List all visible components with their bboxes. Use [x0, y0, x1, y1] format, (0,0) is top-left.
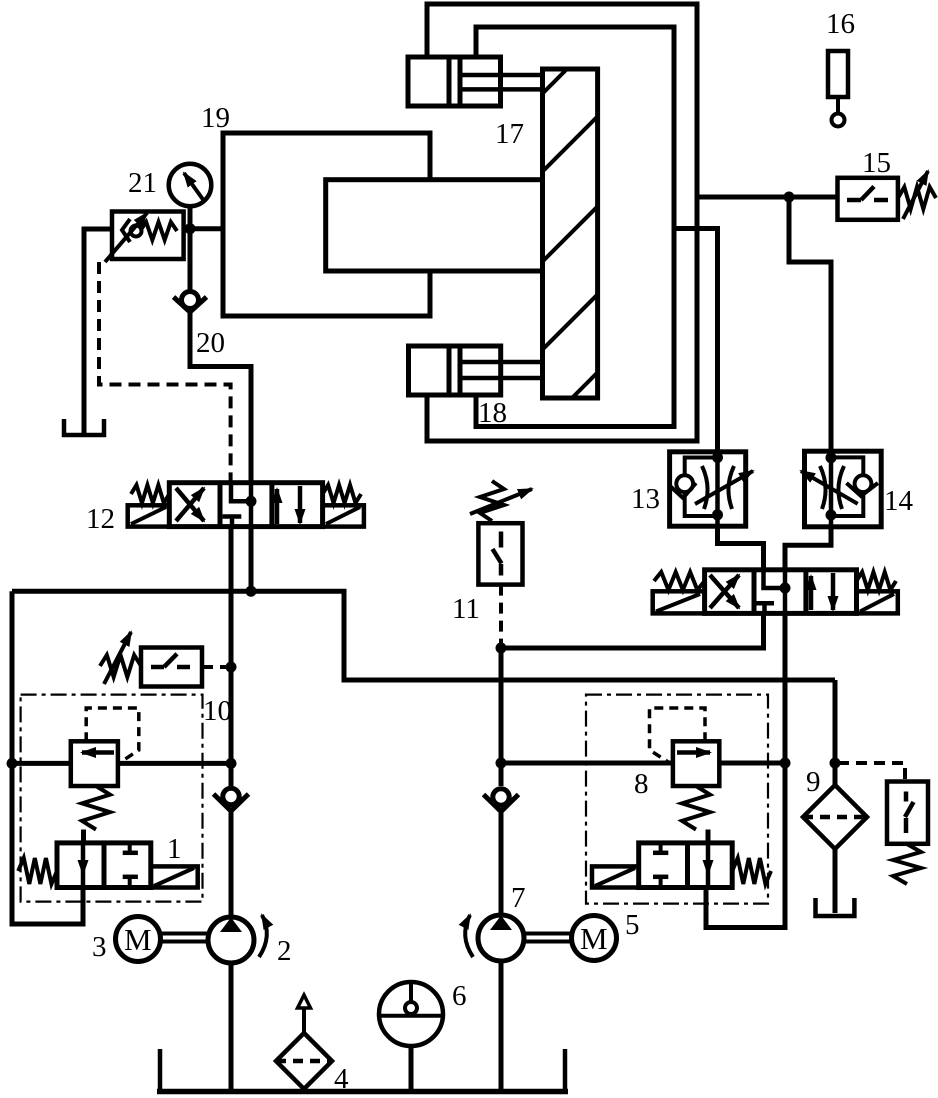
valve 12 left spring: [131, 485, 169, 503]
pressure gauge 21 stem: [188, 207, 193, 229]
svg-text:2: 2: [277, 935, 292, 967]
pump 5 rotation arrow: [465, 915, 473, 957]
cylinder 17 rod top line: [460, 73, 543, 78]
relief valve 1 spring: [82, 786, 110, 830]
motor 3 letter M: [124, 922, 152, 957]
solenoid valve 1 solenoid diagonal: [154, 868, 194, 886]
level gauge 6 stem: [409, 982, 413, 1002]
label 20: [196, 327, 225, 359]
sensor 16 body: [828, 51, 848, 97]
wire right valve A port up: [718, 526, 764, 570]
throttle valve 13 arc right: [728, 466, 734, 509]
solenoid valve 8 blocked bottom stub: [659, 877, 663, 888]
level gauge 6 diameter: [379, 1014, 443, 1018]
right valve right solenoid box: [857, 591, 898, 613]
relief valve 8 pilot dashes: [650, 708, 706, 763]
node junction on relay-15 line: [784, 192, 795, 203]
pump 2 body: [208, 917, 254, 963]
cylinder 18 body: [409, 346, 501, 395]
wire relief 8 line left: [501, 761, 673, 766]
check valve (pump 5) ball: [493, 789, 509, 805]
pressure relay 15 spring: [898, 187, 936, 209]
filter 4 diamond: [276, 1033, 332, 1089]
throttle valve 13 adjust arrow: [695, 471, 753, 504]
wire press port to junction: [190, 226, 223, 231]
solenoid valve 1 flow arrowhead: [78, 860, 89, 876]
throttle valve 13 check ball: [676, 475, 693, 492]
wire relief line left: [12, 761, 71, 766]
tank symbol (right): [816, 898, 855, 916]
node bus junction: [246, 586, 257, 597]
pump 5 triangle: [490, 916, 512, 931]
valve 12 body: [169, 483, 322, 527]
pressure relay (right) spring: [893, 844, 921, 884]
check valve (pump 2) seat: [214, 794, 249, 811]
wire spring to solenoid valve 8: [706, 830, 711, 843]
throttle valve 14 bottom dot: [826, 510, 837, 521]
svg-text:5: 5: [625, 909, 640, 941]
shaft pump5-motor bottom: [524, 940, 572, 944]
label 5: [625, 909, 640, 941]
label 3: [92, 931, 107, 963]
motor 3 body: [116, 917, 161, 962]
cylinder 18 piston line 1: [447, 346, 452, 395]
solenoid valve 1 solenoid box: [151, 866, 198, 887]
svg-text:16: 16: [826, 8, 855, 40]
wire unload valve to junction: [184, 227, 190, 232]
filter 4 arrow: [298, 995, 311, 1008]
cylinder 17 body: [408, 57, 501, 106]
cylinder 18 piston line 2: [458, 346, 463, 395]
right valve center blocked port stub: [762, 603, 767, 613]
throttle valve 13 bottom dot: [712, 509, 723, 520]
svg-text:M: M: [580, 921, 608, 956]
valve 12 right spring: [323, 485, 361, 503]
pressure relay 15 contact left: [847, 198, 861, 203]
solenoid valve 8 body: [639, 843, 733, 888]
sensor 16 stem: [836, 97, 840, 114]
svg-text:17: 17: [495, 118, 524, 150]
relief valve 1 pilot dashes: [86, 708, 139, 763]
label 10: [203, 695, 232, 727]
pressure relay 10 adjust arrow: [104, 632, 131, 684]
throttle valve 14 check seat: [847, 483, 878, 496]
check valve (pump 5) seat: [484, 795, 519, 812]
pressure relay 11 contact bottom: [499, 564, 504, 576]
svg-text:8: 8: [634, 768, 649, 800]
relief/unload valve spring: [140, 222, 177, 240]
svg-text:12: 12: [86, 503, 115, 535]
cylinder 18 rod bottom line: [460, 376, 543, 381]
cylinder 17 piston line 1: [447, 57, 452, 106]
pressure relay 11 contact top: [499, 532, 504, 548]
throttle valve 13 box: [670, 452, 746, 526]
solenoid valve 1 flow arrow: [81, 843, 86, 888]
valve 12 left square X arrow 1: [176, 488, 204, 521]
right valve right solenoid diagonal: [860, 594, 894, 612]
check valve 20 seat: [174, 297, 207, 312]
right valve center L-port: [764, 570, 786, 588]
pressure relay 10 contact right: [177, 665, 190, 670]
svg-text:7: 7: [511, 882, 526, 914]
level gauge 6 inner circle: [405, 1002, 417, 1014]
solenoid valve 1 blocked top stub: [128, 843, 132, 853]
throttle valve 13 bypass loop: [685, 458, 718, 517]
main tank bottom: [157, 1089, 568, 1095]
valve 12 left solenoid box: [128, 505, 170, 526]
main tank left wall: [158, 1049, 163, 1092]
solenoid valve 1 divider: [102, 843, 107, 888]
wire check valve to pump 2: [229, 809, 234, 917]
valve 12 right square down arrow: [298, 486, 303, 523]
label 2: [277, 935, 292, 967]
right valve center blocked port bar: [755, 601, 774, 606]
node filter tap for relay: [830, 758, 841, 769]
svg-text:14: 14: [884, 485, 914, 517]
wire pump 2 riser: [229, 527, 234, 787]
valve 12 body divider right: [269, 483, 274, 527]
label 8: [634, 768, 649, 800]
check valve (pump 2) ball: [223, 788, 239, 804]
solenoid valve 1 blocked top bar: [123, 851, 138, 856]
pressure relay (right) dashed tap: [838, 763, 905, 780]
pressure gauge 21 body: [169, 164, 212, 207]
pressure relay 11 dashed tap: [499, 585, 503, 644]
wire check valve to pump 5: [499, 810, 504, 915]
relief valve 8 box: [673, 741, 719, 786]
wire branch to throttle valve 14: [789, 197, 831, 451]
right valve left spring: [654, 572, 705, 590]
wire pump 5 riser upper: [499, 648, 504, 786]
label 13: [631, 483, 660, 515]
label 18: [478, 397, 507, 429]
relief/unload valve body (at 21): [112, 212, 184, 260]
svg-text:19: 19: [201, 102, 230, 134]
relief valve 1 box: [71, 741, 118, 786]
sensor 16 contact circle: [832, 114, 845, 127]
wire check valve 20 to valve 12: [190, 312, 251, 483]
label 7: [511, 882, 526, 914]
wire tank bus: [12, 591, 835, 680]
press cylinder 19 body: [223, 133, 430, 316]
wire bus to filter 9: [833, 680, 838, 785]
pressure relay 11 spring: [480, 481, 504, 521]
wire spring to solenoid valve 1: [81, 830, 86, 843]
label 9: [806, 766, 821, 798]
solenoid valve 8 blocked bottom bar: [653, 875, 668, 880]
label 11: [452, 593, 480, 625]
solenoid valve 1 body: [57, 843, 151, 888]
cylinder 17 rod bottom line: [460, 87, 543, 92]
wire branch to throttle valve 13: [674, 229, 718, 452]
wire right valve B port up: [785, 527, 831, 570]
workpiece block with hatching: [238, 69, 901, 398]
solenoid valve 1 spring: [18, 858, 57, 884]
valve 12 left solenoid diagonal: [131, 507, 166, 524]
wire to pressure relay 15: [697, 195, 838, 200]
wire filter 9 to tank: [833, 849, 838, 913]
label 21: [128, 167, 157, 199]
solenoid valve 8 flow arrow: [706, 843, 711, 888]
relief valve 1 arrow: [82, 750, 114, 755]
wire left bus down to solenoid valve 1: [12, 591, 83, 924]
right valve right square down arrow: [831, 573, 836, 610]
label 14: [884, 485, 914, 517]
svg-text:13: 13: [631, 483, 660, 515]
throttle valve 13 through line: [715, 452, 720, 526]
throttle valve 14 adjust arrow: [801, 471, 858, 504]
enclosure 8 (dash-dot): [586, 695, 768, 904]
label 4: [334, 1063, 349, 1095]
svg-text:15: 15: [862, 147, 891, 179]
svg-text:6: 6: [452, 980, 467, 1012]
pressure relay (right) box: [887, 782, 928, 844]
node left bus relief tee: [7, 758, 18, 769]
pilot dashed line from unload valve to valve 12: [99, 262, 231, 483]
relief/unload valve seat: [122, 219, 130, 242]
wire outer clamp loop (cyl17 cap port to cyl18 cap port): [427, 4, 697, 441]
wire relief 8 line right: [719, 761, 785, 766]
svg-text:M: M: [124, 922, 152, 957]
svg-text:11: 11: [452, 593, 480, 625]
solenoid valve 1 blocked bottom bar: [123, 875, 138, 880]
throttle valve 14 check ball: [855, 475, 872, 492]
pressure relay (right) contact top: [904, 792, 909, 802]
pressure relay (right) contact bottom: [904, 818, 909, 833]
motor 5 letter M: [580, 921, 608, 956]
valve 12 right solenoid box: [323, 505, 364, 526]
throttle valve 13 top dot: [712, 452, 723, 463]
solenoid valve 8 flow arrowhead: [703, 860, 714, 876]
throttle valve 14 bypass loop: [831, 457, 863, 516]
throttle valve 14 box: [805, 451, 882, 527]
filter 9 diamond: [803, 785, 867, 849]
valve 12 center through line: [249, 483, 254, 527]
level gauge 6 body: [379, 982, 443, 1046]
throttle valve 13 check seat: [670, 483, 696, 498]
wire valve 12 through-port to tank bus: [249, 527, 254, 592]
svg-text:20: 20: [196, 327, 225, 359]
svg-text:9: 9: [806, 766, 821, 798]
valve 12 right square up arrow: [275, 489, 280, 524]
main tank right wall: [563, 1049, 568, 1092]
pressure gauge 21 needle: [184, 173, 203, 200]
wire pump 5 to right valve P port: [501, 613, 764, 648]
node gauge junction: [185, 223, 196, 234]
shaft pump5-motor top: [524, 932, 572, 936]
solenoid valve 8 solenoid box: [592, 866, 639, 887]
filter 4 dashes: [276, 1059, 332, 1064]
pressure relay 10 spring: [100, 655, 141, 677]
pressure relay 10 dashed tap: [202, 665, 228, 669]
svg-text:18: 18: [478, 397, 507, 429]
node relief 8 line tap: [496, 758, 507, 769]
throttle valve 14 top dot: [826, 452, 837, 463]
right valve left square X arrow 2: [710, 575, 739, 608]
valve 12 left square X arrow 2: [176, 488, 204, 521]
wire unload valve outlet to tank: [84, 229, 112, 435]
svg-text:4: 4: [334, 1063, 349, 1095]
wire relief line right: [118, 761, 231, 766]
wire right valve through-port down to solenoid valve 8: [706, 613, 785, 927]
throttle valve 14 arc right: [838, 466, 844, 509]
valve 12 center junction dot: [246, 496, 257, 507]
pressure relay 15 contact right: [874, 198, 888, 203]
wire junction to check valve 20: [188, 229, 193, 292]
wire inner clamp loop (cyl17 rod port to cyl18 rod port): [476, 27, 674, 427]
relief/unload valve ball: [131, 226, 142, 237]
pressure relay 10 contact left: [151, 665, 164, 670]
pump 2 rotation arrow: [259, 915, 267, 957]
motor 5 body: [572, 916, 617, 961]
cylinder 17 piston line 2: [458, 57, 463, 106]
right valve left square X arrow 1: [710, 575, 739, 608]
right valve right square up arrow: [809, 576, 814, 610]
label 6: [452, 980, 467, 1012]
solenoid valve 8 spring: [732, 858, 771, 884]
valve 12 body divider left: [218, 483, 223, 527]
pressure relay (right) contact blade: [905, 802, 914, 817]
throttle valve 14 through line: [829, 451, 834, 527]
pressure relay 11 box: [478, 523, 522, 584]
filter 4 stem: [302, 1008, 306, 1033]
pressure relay 10 box: [141, 648, 202, 687]
cylinder 18 rod top line: [460, 360, 543, 365]
right valve right spring: [857, 572, 897, 590]
label 16: [826, 8, 855, 40]
svg-text:1: 1: [167, 833, 182, 865]
tank symbol (top left): [64, 419, 104, 435]
pressure relay 11 contact blade: [493, 549, 502, 564]
right valve left solenoid diagonal: [656, 594, 700, 612]
press cylinder 19 ram: [326, 180, 543, 271]
throttle valve 13 arc left: [702, 466, 708, 509]
wire pump 2 suction: [229, 963, 234, 1089]
check valve 20 ball: [182, 292, 199, 309]
solenoid valve 8 solenoid diagonal: [595, 868, 635, 886]
solenoid valve 8 blocked top stub: [659, 843, 663, 853]
pump 2 triangle: [220, 918, 242, 933]
right valve left solenoid box: [653, 591, 705, 613]
relief valve 8 spring: [682, 786, 710, 830]
right valve center through line: [783, 570, 788, 614]
right valve center junction dot: [780, 583, 791, 594]
svg-text:21: 21: [128, 167, 157, 199]
pressure relay 11 adjust arrow: [470, 489, 532, 514]
solenoid valve 8 divider: [685, 843, 690, 888]
shaft pump2-motor3 top: [161, 932, 209, 936]
solenoid valve 8 blocked top bar: [653, 851, 668, 856]
enclosure 10 (dash-dot): [21, 695, 203, 902]
wire pump 5 suction: [499, 961, 504, 1089]
solenoid valve 1 blocked bottom stub: [128, 877, 132, 888]
throttle valve 14 arc left: [820, 466, 826, 509]
relief valve 8 arrow: [677, 750, 710, 755]
label 1: [167, 833, 182, 865]
label 15: [862, 147, 891, 179]
pressure relay 15 box: [838, 178, 898, 220]
right valve body: [705, 570, 857, 614]
svg-text:10: 10: [203, 695, 232, 727]
right valve body divider left: [752, 570, 757, 614]
node relief 8 outlet tee: [780, 758, 791, 769]
right valve body divider right: [803, 570, 808, 614]
wire level gauge to tank: [409, 1046, 414, 1089]
pressure relay 10 contact blade: [164, 654, 177, 667]
filter 9 dashes: [803, 815, 867, 820]
relief/unload valve arrow: [105, 213, 147, 262]
pump 5 body: [478, 915, 524, 961]
shaft pump2-motor3 bottom: [161, 940, 209, 944]
valve 12 center blocked port stub: [230, 517, 235, 527]
pressure relay 15 contact blade: [861, 187, 874, 201]
node relief line tap: [226, 758, 237, 769]
valve 12 center L-port: [231, 483, 251, 502]
valve 12 right solenoid diagonal: [326, 507, 360, 524]
pressure relay 15 adjust arrow: [903, 171, 928, 219]
label 19: [201, 102, 230, 134]
label 12: [86, 503, 115, 535]
valve 12 center blocked port bar: [223, 514, 242, 519]
label 17: [495, 118, 524, 150]
svg-text:3: 3: [92, 931, 107, 963]
node relay 10 tap: [226, 662, 237, 673]
node pump 5 branch junction: [496, 643, 507, 654]
